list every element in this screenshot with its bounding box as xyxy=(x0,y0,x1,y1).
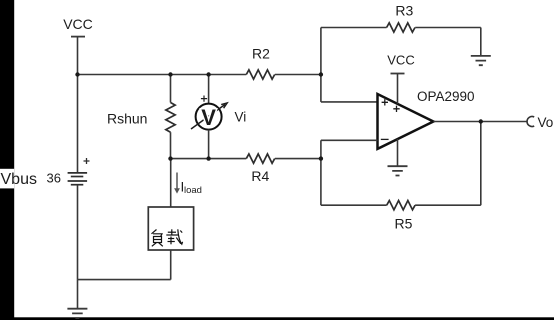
svg-text:Vi: Vi xyxy=(235,110,247,125)
svg-text:R3: R3 xyxy=(395,3,413,19)
node voltmeter top xyxy=(206,72,210,76)
wire voltmeter bottom xyxy=(208,130,210,159)
node R4 / -input / R5 xyxy=(319,156,323,160)
wire battery bottom xyxy=(77,185,79,280)
wire V- pin xyxy=(397,139,399,166)
node output / R5 xyxy=(479,119,483,123)
node top bus / battery / VCC xyxy=(75,72,79,76)
svg-text:OPA2990: OPA2990 xyxy=(417,89,475,104)
power VCC supply left xyxy=(63,16,93,37)
resistor R4 xyxy=(246,154,274,184)
svg-text:R4: R4 xyxy=(251,168,269,184)
load block 负载 xyxy=(148,207,193,250)
svg-text:V: V xyxy=(201,105,216,130)
载 xyxy=(166,229,182,244)
负 xyxy=(152,230,163,247)
voltmeter Vi xyxy=(191,96,227,130)
wire R5 right xyxy=(415,204,481,206)
wire output to R5 xyxy=(480,122,482,206)
wire R5 left xyxy=(321,204,387,206)
node R2 / R3 / +input xyxy=(319,72,323,76)
op-amp U1 OPA2990 xyxy=(378,89,475,149)
svg-text:36: 36 xyxy=(47,171,61,186)
node voltmeter bottom xyxy=(206,156,210,160)
wire top bus right xyxy=(275,74,321,76)
svg-text:VCC: VCC xyxy=(387,53,414,68)
power VCC supply op-amp xyxy=(387,53,414,74)
ground at op-amp xyxy=(388,166,408,175)
wire R3 to ground xyxy=(480,28,482,56)
wire to op-amp -input xyxy=(321,139,378,141)
wire op-amp output xyxy=(433,121,527,123)
wire to op-amp +input xyxy=(321,101,378,103)
battery Vbus 36V xyxy=(68,158,90,185)
svg-text:R5: R5 xyxy=(395,216,413,232)
wire R3 top right xyxy=(415,27,481,29)
wire Rshun bottom xyxy=(170,132,172,158)
wire top bus left xyxy=(78,74,247,76)
ground at R3 xyxy=(471,56,491,65)
terminal Vo xyxy=(527,115,553,130)
wire VCC stub to top bus xyxy=(77,37,79,75)
wire VCC pin xyxy=(397,74,399,104)
ground at battery xyxy=(67,309,87,318)
resistor Rshun xyxy=(107,103,175,133)
wire R3 top left xyxy=(321,27,387,29)
wire bottom bus left xyxy=(171,158,247,160)
wire bottom bus right xyxy=(275,158,321,160)
current arrow Iload xyxy=(174,173,202,196)
wire voltmeter top xyxy=(208,75,210,104)
wire battery top xyxy=(77,75,79,173)
wire Rshun top xyxy=(170,75,172,103)
svg-text:load: load xyxy=(184,185,202,196)
node Rshun top xyxy=(168,72,172,76)
svg-text:VCC: VCC xyxy=(63,16,93,32)
svg-text:Vbus: Vbus xyxy=(1,171,37,188)
wire bottom return xyxy=(78,279,171,281)
node Rshun bottom / load xyxy=(168,156,172,160)
resistor R5 xyxy=(387,201,415,232)
wire load top xyxy=(170,159,172,207)
svg-text:Rshun: Rshun xyxy=(107,111,147,127)
svg-text:Vo: Vo xyxy=(538,115,554,130)
svg-text:R2: R2 xyxy=(252,46,270,62)
wire load bottom xyxy=(170,250,172,280)
resistor R2 xyxy=(246,46,274,80)
wire to bottom ground xyxy=(77,280,79,309)
resistor R3 xyxy=(387,3,415,33)
wire junction vertical to R3 and +input xyxy=(320,28,322,102)
wire -input vertical xyxy=(320,140,322,205)
